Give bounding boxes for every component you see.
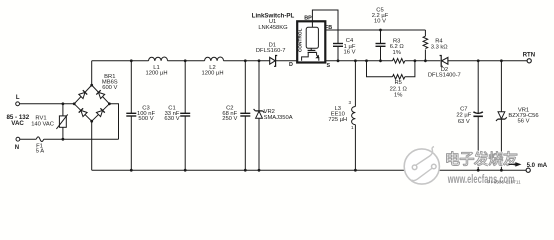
svg-text:D: D [289,62,293,68]
svg-text:DFLS1400-7: DFLS1400-7 [428,73,461,79]
inductor L2 [201,57,223,77]
capacitor C3 [126,61,155,170]
capacitor C2 [222,61,250,170]
wire rail L2 to D1 [224,60,270,62]
wire bridge bottom to 0V rail [91,121,93,170]
svg-text:BP: BP [304,16,312,22]
svg-text:22 µF: 22 µF [456,113,471,119]
svg-text:1200 µH: 1200 µH [145,71,167,77]
wire rail R3 to D2 [405,60,441,62]
svg-text:16 V: 16 V [344,49,356,55]
capacitor C1 [164,61,190,170]
capacitor C7 [456,61,483,170]
diode D2 [428,56,461,79]
label output current [527,163,548,169]
svg-text:600 V: 600 V [102,85,117,91]
svg-text:L: L [16,95,20,101]
svg-text:1: 1 [351,125,354,130]
wire rail U1 S to R3 [325,60,392,62]
svg-text:C7: C7 [460,106,467,112]
wire bridge right corner to N [109,104,118,139]
watermark elecfans logo and text [404,147,521,187]
wire FB [325,29,425,31]
wire rail bridge to L1 [92,60,149,62]
node R5 left [365,59,368,62]
svg-text:725 µH: 725 µH [328,117,347,123]
label U1 part [252,13,295,32]
svg-text:PI-6506-110711: PI-6506-110711 [488,179,522,184]
svg-text:SMAJ350A: SMAJ350A [264,115,293,121]
terminal L [16,95,20,106]
svg-text:VAC: VAC [11,120,24,127]
svg-text:1200 µH: 1200 µH [201,71,223,77]
svg-text:mA: mA [537,163,547,169]
node RV1-N junction [62,138,65,141]
resistor R4 [423,30,448,61]
resistor R5 [367,61,415,99]
svg-text:630 V: 630 V [164,116,179,122]
zener VR2 [254,61,293,170]
node C3 bottom [130,169,133,172]
svg-text:R4: R4 [435,38,443,44]
terminal output [526,168,530,172]
svg-text:DFLS160-7: DFLS160-7 [256,48,286,54]
node L3 bottom [354,169,357,172]
wire BP to C4 [312,10,338,44]
svg-text:63 V: 63 V [458,119,470,125]
node C4 bottom [337,59,340,62]
node C3 top [130,59,133,62]
node VR1 top [500,59,503,62]
wire D1 to U1 D pin [276,60,297,62]
svg-text:5.0: 5.0 [527,163,536,169]
label input voltage [6,114,29,127]
svg-text:10 V: 10 V [374,19,386,25]
bridge rectifier BR1 [73,74,118,122]
node C5 top [379,29,382,32]
capacitor C5 [372,7,389,61]
node L3 top [354,59,357,62]
node C7 top [477,59,480,62]
node C5 bottom [379,59,382,62]
diode D1 [256,42,286,66]
svg-text:3.3 kΩ: 3.3 kΩ [431,45,449,51]
wire bridge top to rail [91,61,93,85]
node C2 bottom [244,169,247,172]
svg-text:140 VAC: 140 VAC [31,121,54,127]
wire N input (fuse left) [20,138,37,140]
node VR2 top [258,59,261,62]
node VR1 bottom [500,169,503,172]
op-amp U1 LNK458KG IC [289,16,332,69]
svg-text:500 V: 500 V [138,116,153,122]
svg-text:LNK458KG: LNK458KG [258,25,288,31]
node R4 bottom [424,59,427,62]
svg-text:250 V: 250 V [222,116,237,122]
varistor RV1 [31,104,67,139]
node C1 bottom [184,169,187,172]
fuse F1 [36,137,45,155]
svg-text:1%: 1% [394,93,402,99]
terminal N [15,137,20,151]
resistor R3 [390,39,405,64]
svg-text:1%: 1% [393,50,401,56]
wire N input (fuse right) [44,138,119,140]
svg-text:S: S [326,63,330,69]
wire 0V bottom rail [92,169,526,171]
node C2 top [244,59,247,62]
svg-text:N: N [15,145,19,151]
svg-text:56 V: 56 V [518,119,530,125]
inductor L3 [328,61,355,170]
svg-text:RTN: RTN [523,52,535,58]
label output current arrow [509,163,521,166]
wire L input [20,103,75,105]
node C7 bottom [477,169,480,172]
node C1 top [184,59,187,62]
inductor L1 [145,57,167,77]
node R5 right [414,59,417,62]
svg-text:5 A: 5 A [36,149,45,155]
zener VR1 [496,61,539,170]
terminal RTN [523,52,535,63]
svg-text:3: 3 [348,100,351,105]
wire rail D2 to RTN [448,60,527,62]
node RV1-L junction [62,102,65,105]
svg-text:CONTROL: CONTROL [298,28,304,52]
svg-text:R5: R5 [394,80,401,86]
capacitor C4 [333,38,356,61]
node VR2 bottom [258,169,261,172]
wire rail L1 to L2 [168,60,205,62]
